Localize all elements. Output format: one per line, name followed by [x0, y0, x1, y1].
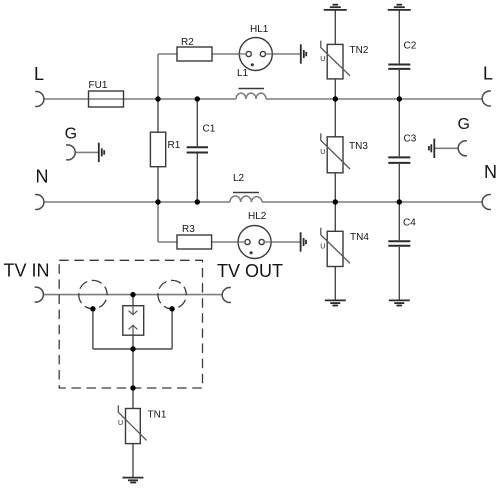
svg-text:R2: R2 [181, 37, 194, 48]
svg-text:TN3: TN3 [349, 141, 368, 152]
svg-text:C4: C4 [403, 218, 416, 229]
svg-text:N: N [484, 162, 497, 182]
svg-text:L2: L2 [233, 173, 245, 184]
svg-text:HL2: HL2 [248, 211, 267, 222]
svg-text:U: U [320, 244, 325, 251]
svg-text:FU1: FU1 [89, 80, 108, 91]
svg-text:R3: R3 [182, 224, 195, 235]
svg-text:HL1: HL1 [250, 24, 269, 35]
svg-text:TV OUT: TV OUT [217, 261, 283, 281]
svg-text:L: L [34, 64, 44, 84]
svg-text:TN1: TN1 [148, 410, 167, 421]
svg-text:TN2: TN2 [350, 45, 369, 56]
svg-text:TN4: TN4 [350, 232, 369, 243]
svg-text:C1: C1 [203, 124, 216, 135]
svg-text:L1: L1 [237, 68, 249, 79]
svg-text:C3: C3 [404, 134, 417, 145]
svg-text:N: N [36, 167, 49, 187]
svg-text:G: G [65, 125, 77, 142]
svg-text:U: U [320, 149, 325, 156]
svg-text:G: G [458, 116, 470, 133]
svg-text:U: U [118, 420, 123, 427]
svg-text:L: L [483, 64, 493, 84]
svg-text:C2: C2 [404, 41, 417, 52]
svg-text:TV IN: TV IN [4, 261, 50, 281]
svg-text:U: U [320, 56, 325, 63]
svg-text:R1: R1 [168, 140, 181, 151]
